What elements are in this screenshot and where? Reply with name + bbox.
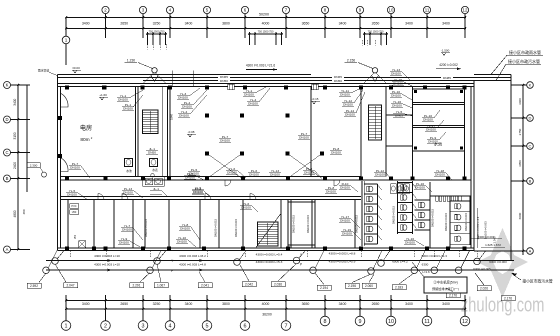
svg-text:2.194: 2.194 <box>320 286 328 290</box>
svg-text:接小区市政污水管: 接小区市政污水管 <box>508 58 540 64</box>
svg-text:K: K <box>529 82 532 87</box>
svg-text:3: 3 <box>142 323 145 329</box>
svg-text:3400: 3400 <box>405 302 413 306</box>
svg-text:2650: 2650 <box>372 22 380 26</box>
svg-text:9: 9 <box>359 319 362 325</box>
svg-text:C: C <box>529 143 532 148</box>
svg-text:C: C <box>5 150 8 155</box>
svg-text:4300 i=0.003 L=5.3: 4300 i=0.003 L=5.3 <box>256 260 283 264</box>
svg-text:PVC: PVC <box>71 205 76 208</box>
svg-text:2.047: 2.047 <box>67 284 75 288</box>
svg-text:4300 i=0.003 L=5.4: 4300 i=0.003 L=5.4 <box>256 252 283 256</box>
svg-text:4300 i=0.003 L=10: 4300 i=0.003 L=10 <box>94 254 120 258</box>
svg-text:U50: U50 <box>75 234 77 239</box>
svg-text:2.196: 2.196 <box>348 284 356 288</box>
svg-text:2650: 2650 <box>372 302 380 306</box>
svg-text:3400: 3400 <box>82 302 90 306</box>
svg-text:2750: 2750 <box>518 128 522 135</box>
svg-text:2.060: 2.060 <box>365 284 373 288</box>
svg-text:3400: 3400 <box>405 22 413 26</box>
svg-text:4300 i=0.003 L=10: 4300 i=0.003 L=10 <box>94 262 120 266</box>
svg-text:DN100 i=0.015: DN100 i=0.015 <box>214 218 218 237</box>
svg-text:D: D <box>529 115 532 120</box>
svg-text:3400: 3400 <box>185 22 193 26</box>
svg-text:5: 5 <box>206 323 209 329</box>
svg-text:预留给排水接口(一): 预留给排水接口(一) <box>432 286 459 291</box>
svg-text:2650: 2650 <box>120 302 128 306</box>
svg-text:4300 i=0.003 L=8.8: 4300 i=0.003 L=8.8 <box>329 252 356 256</box>
svg-text:DN100 i=0.015: DN100 i=0.015 <box>392 205 396 224</box>
svg-text:2.026: 2.026 <box>480 287 488 291</box>
svg-text:3250: 3250 <box>153 22 161 26</box>
svg-text:DN85: DN85 <box>443 76 451 80</box>
svg-text:4300 i=0.003 L=8.2: 4300 i=0.003 L=8.2 <box>179 254 206 258</box>
svg-text:DN100 i=0.015: DN100 i=0.015 <box>306 214 310 233</box>
svg-text:3400: 3400 <box>518 98 522 105</box>
svg-text:3050: 3050 <box>518 160 522 167</box>
svg-text:接小区市政雨水管: 接小区市政雨水管 <box>509 49 541 55</box>
svg-text:12: 12 <box>462 319 468 325</box>
svg-text:DN100 i=0.015: DN100 i=0.015 <box>444 212 448 231</box>
svg-text:8: 8 <box>324 319 327 325</box>
svg-text:4000: 4000 <box>262 22 270 26</box>
svg-text:水表: 水表 <box>152 168 158 172</box>
svg-text:4200 i=0.002: 4200 i=0.002 <box>439 63 458 67</box>
svg-text:zhulong.com: zhulong.com <box>461 293 545 316</box>
svg-text:750 1500 750: 750 1500 750 <box>258 29 274 33</box>
svg-text:-1.500: -1.500 <box>441 49 450 53</box>
svg-text:3400: 3400 <box>13 98 17 105</box>
svg-text:L=1.6: L=1.6 <box>422 270 430 274</box>
svg-text:接小区市政污水管: 接小区市政污水管 <box>522 279 553 284</box>
svg-text:1: 1 <box>65 323 68 329</box>
svg-text:2400: 2400 <box>13 162 17 169</box>
svg-text:2.176: 2.176 <box>504 297 512 301</box>
svg-text:DN50: DN50 <box>334 79 342 83</box>
svg-text:3150: 3150 <box>13 132 17 139</box>
svg-text:11: 11 <box>424 319 430 325</box>
svg-text:2.183: 2.183 <box>395 286 403 290</box>
svg-text:1840: 1840 <box>170 114 174 120</box>
svg-text:DN100 i=0.015: DN100 i=0.015 <box>292 214 296 233</box>
svg-text:DN100 i=0.015: DN100 i=0.015 <box>355 214 359 233</box>
svg-text:K: K <box>6 83 9 88</box>
svg-text:2.156: 2.156 <box>347 59 355 63</box>
svg-text:B: B <box>529 178 532 183</box>
svg-text:DN100 i=0.015: DN100 i=0.015 <box>464 212 468 231</box>
svg-text:4: 4 <box>169 323 172 329</box>
svg-text:2.036: 2.036 <box>274 283 282 287</box>
svg-text:750 1500 750: 750 1500 750 <box>368 29 384 33</box>
svg-text:2.300: 2.300 <box>30 164 38 168</box>
svg-text:6000: 6000 <box>518 212 522 219</box>
svg-text:-0.15: -0.15 <box>312 97 319 101</box>
svg-text:4300 i=0.003 L=4.3: 4300 i=0.003 L=4.3 <box>421 254 447 258</box>
svg-text:6000 L=4.2: 6000 L=4.2 <box>392 260 408 264</box>
svg-text:80m: 80m <box>80 137 89 143</box>
svg-text:2650: 2650 <box>120 22 128 26</box>
svg-text:3800: 3800 <box>222 302 230 306</box>
svg-text:B: B <box>6 176 9 181</box>
svg-text:2.041: 2.041 <box>201 284 209 288</box>
svg-text:4300 i=0.003 L=21.6: 4300 i=0.003 L=21.6 <box>246 63 275 67</box>
svg-text:水池: 水池 <box>126 169 132 173</box>
svg-text:3400: 3400 <box>339 22 347 26</box>
svg-text:雨水管道: 雨水管道 <box>38 68 50 73</box>
svg-text:2: 2 <box>104 323 107 329</box>
svg-text:10: 10 <box>389 8 394 13</box>
svg-text:6300 i=0.003: 6300 i=0.003 <box>489 260 507 264</box>
svg-text:480: 480 <box>22 209 26 214</box>
svg-text:②中水机房(5m²): ②中水机房(5m²) <box>433 279 457 284</box>
svg-text:6300 i=0.005: 6300 i=0.005 <box>473 267 491 271</box>
svg-text:DN100 i=0.015: DN100 i=0.015 <box>234 218 238 237</box>
svg-text:36200: 36200 <box>262 313 272 317</box>
svg-text:12: 12 <box>463 8 468 13</box>
svg-text:3650: 3650 <box>302 22 310 26</box>
svg-text:3650: 3650 <box>302 302 310 306</box>
svg-text:3400: 3400 <box>442 302 450 306</box>
svg-text:A: A <box>6 247 9 252</box>
svg-text:4300 i=0.005 L=5.9: 4300 i=0.005 L=5.9 <box>329 260 356 264</box>
svg-text:1.545: 1.545 <box>493 236 497 243</box>
svg-text:+1.60: +1.60 <box>99 93 107 97</box>
svg-text:电房: 电房 <box>80 124 92 132</box>
svg-text:4800: 4800 <box>13 210 17 217</box>
svg-text:DN100 i=0.015: DN100 i=0.015 <box>144 218 148 237</box>
svg-text:6300: 6300 <box>422 263 429 267</box>
svg-text:3800: 3800 <box>222 22 230 26</box>
svg-text:7: 7 <box>285 323 288 329</box>
svg-text:2.592: 2.592 <box>30 284 38 288</box>
svg-text:4000: 4000 <box>262 302 270 306</box>
svg-text:11: 11 <box>425 8 430 13</box>
svg-text:3400: 3400 <box>82 22 90 26</box>
svg-text:6: 6 <box>244 323 247 329</box>
svg-text:U50: U50 <box>72 211 77 214</box>
svg-text:D: D <box>5 117 8 122</box>
svg-text:DN100 i=0.015: DN100 i=0.015 <box>431 208 435 227</box>
svg-text:2.042: 2.042 <box>245 283 253 287</box>
svg-text:4300 i=0.003 L=4.8: 4300 i=0.003 L=4.8 <box>179 262 206 266</box>
svg-text:1.230: 1.230 <box>127 59 135 63</box>
svg-text:1.067: 1.067 <box>157 284 165 288</box>
svg-text:50200: 50200 <box>259 13 269 17</box>
svg-text:-0.08: -0.08 <box>188 130 195 134</box>
svg-text:750 1500 750: 750 1500 750 <box>149 29 165 33</box>
svg-text:P: P <box>300 262 302 266</box>
svg-text:A: A <box>529 248 532 253</box>
svg-text:3400: 3400 <box>442 22 450 26</box>
svg-text:3400: 3400 <box>185 302 193 306</box>
svg-text:3250: 3250 <box>153 302 161 306</box>
svg-text:1: 1 <box>65 38 68 43</box>
svg-text:2.176: 2.176 <box>449 294 457 298</box>
svg-text:2.291: 2.291 <box>133 284 141 288</box>
svg-text:10: 10 <box>388 319 394 325</box>
svg-text:3400: 3400 <box>339 302 347 306</box>
svg-text:JL-1: JL-1 <box>153 187 159 191</box>
svg-text:DN50: DN50 <box>220 79 228 83</box>
svg-text:±0.00: ±0.00 <box>72 66 80 70</box>
